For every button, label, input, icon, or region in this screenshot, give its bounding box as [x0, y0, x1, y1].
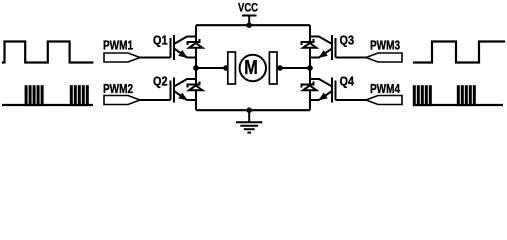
port PWM1 [104, 53, 140, 62]
wire motor right [277, 67, 310, 69]
junction motor right terminal [277, 65, 283, 71]
port PWM2 [104, 96, 140, 105]
wire left rail lower [195, 90, 197, 110]
waveform PWM1 input square wave [3, 42, 92, 63]
wire left rail mid [195, 48, 197, 85]
junction left rail motor node [193, 65, 199, 71]
svg-text:VCC: VCC [238, 0, 258, 14]
waveform PWM4 output burst wave [413, 85, 503, 106]
zener diode across Q4 [302, 82, 317, 91]
zener diode across Q1 [188, 39, 203, 48]
svg-text:PWM1: PWM1 [103, 37, 133, 52]
wire bottom rail [196, 109, 310, 111]
waveform PWM2 input burst wave [2, 85, 93, 106]
transistor Q1 [171, 35, 197, 60]
junction right rail motor node [307, 65, 313, 71]
motor M brush left [228, 52, 236, 84]
port PWM4 [366, 96, 402, 105]
svg-text:PWM3: PWM3 [370, 37, 400, 52]
svg-text:PWM2: PWM2 [103, 81, 133, 96]
junction ground node [246, 107, 252, 113]
zener diode across Q3 [302, 39, 317, 48]
wire right rail mid [309, 48, 311, 85]
svg-text:Q2: Q2 [153, 74, 168, 88]
wire VCC top rail [196, 24, 310, 26]
transistor Q3 [310, 35, 336, 60]
svg-text:Q3: Q3 [340, 33, 355, 47]
wire left rail upper [195, 25, 197, 42]
junction motor left terminal [223, 65, 229, 71]
wire PWM1 to Q1 gate [140, 57, 171, 59]
svg-text:Q4: Q4 [340, 74, 355, 88]
port PWM3 [366, 53, 402, 62]
motor M brush right [269, 52, 277, 84]
wire right rail upper [309, 25, 311, 42]
transistor Q4 [310, 78, 336, 103]
waveform PWM3 output square wave [414, 42, 504, 63]
wire PWM2 to Q2 gate [140, 99, 171, 101]
svg-text:PWM4: PWM4 [370, 81, 401, 96]
svg-text:Q1: Q1 [153, 33, 168, 47]
junction VCC node [246, 22, 252, 28]
wire PWM3 to Q3 gate [336, 57, 367, 59]
ground [236, 110, 262, 132]
motor M body [240, 55, 266, 81]
wire PWM4 to Q4 gate [336, 99, 367, 101]
wire motor left [196, 67, 228, 69]
zener diode across Q2 [188, 82, 203, 91]
VCC power symbol [242, 16, 257, 26]
transistor Q2 [171, 78, 197, 103]
wire right rail lower [309, 90, 311, 110]
svg-text:M: M [244, 57, 257, 79]
